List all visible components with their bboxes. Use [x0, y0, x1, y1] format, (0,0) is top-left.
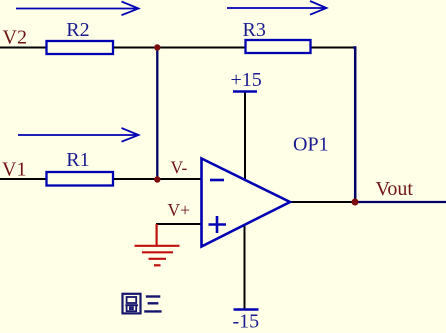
wire R1 to inverting input — [112, 178, 201, 180]
wire Vout — [355, 201, 446, 203]
op-amp inverting input marker — [210, 179, 224, 182]
wire V2 input — [0, 47, 47, 49]
svg-text:OP1: OP1 — [293, 134, 329, 156]
op-amp U1 triangle — [202, 159, 291, 247]
svg-text:-15: -15 — [233, 311, 260, 333]
node V2-R2-R3 junction — [154, 44, 160, 50]
resistor R1 — [47, 149, 114, 186]
+15 supply bar — [231, 69, 262, 92]
svg-text:V1: V1 — [2, 159, 26, 181]
op-amp non-inverting input marker — [209, 216, 227, 233]
svg-text:R2: R2 — [66, 19, 89, 41]
svg-text:V2: V2 — [3, 27, 27, 49]
wire -15 stem — [244, 225, 246, 309]
svg-text:V+: V+ — [168, 200, 191, 220]
node output junction — [352, 199, 359, 206]
svg-text:V-: V- — [171, 158, 188, 178]
arrow above R2 — [16, 2, 139, 16]
ground — [135, 246, 180, 265]
wire op-amp output — [289, 201, 356, 203]
wire R3 to feedback corner — [310, 47, 354, 49]
wire R2 to R3 (top net) — [112, 47, 246, 49]
wire junction vertical (R2 node to R1 node) — [156, 48, 158, 180]
svg-text:R3: R3 — [243, 19, 266, 41]
arrow above R3 — [227, 1, 327, 15]
wire feedback vertical — [353, 48, 355, 203]
svg-text:Vout: Vout — [376, 178, 414, 200]
wire ground stem — [156, 224, 158, 246]
resistor R3 — [243, 19, 311, 53]
arrow above R1 — [18, 128, 139, 142]
svg-text:R1: R1 — [66, 149, 89, 171]
node inverting input junction — [154, 176, 160, 182]
wire V1 input — [0, 178, 47, 180]
wire +15 stem — [244, 92, 246, 180]
label figure caption 圖三 — [123, 294, 162, 314]
resistor R2 — [47, 19, 114, 54]
-15 supply bar — [233, 310, 260, 333]
svg-text:+15: +15 — [231, 69, 262, 91]
wire non-inverting input — [156, 223, 201, 225]
